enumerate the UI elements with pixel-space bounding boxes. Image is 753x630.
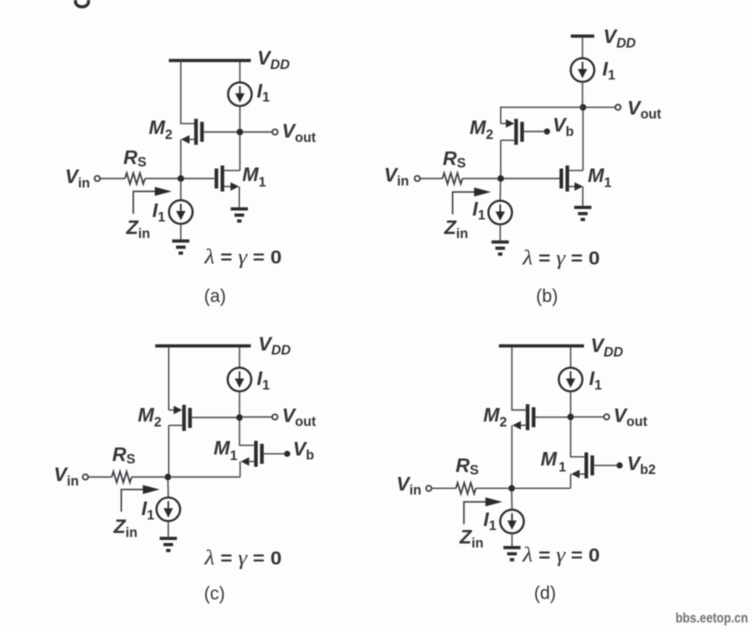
svg-text:(c): (c) xyxy=(204,584,225,604)
M1 label (b) xyxy=(588,165,612,190)
svg-text:bbs.eetop.cn: bbs.eetop.cn xyxy=(676,611,749,626)
svg-text:I1: I1 xyxy=(141,498,154,522)
svg-text:M2: M2 xyxy=(470,117,494,142)
svg-text:M2: M2 xyxy=(138,404,162,429)
wire resistor to input node (a) xyxy=(145,178,178,180)
current source I1 bottom (a) xyxy=(169,200,193,224)
wire resistor to input node (b) xyxy=(463,178,498,180)
svg-text:Vin: Vin xyxy=(65,166,90,190)
partial letter g from cropped caption xyxy=(75,0,88,7)
wire input node to I1 bottom (d) xyxy=(511,492,513,510)
svg-text:λ = γ = 0: λ = γ = 0 xyxy=(204,545,282,569)
Vb2 label (d) xyxy=(627,453,656,477)
Vout node dot (d) xyxy=(567,414,574,421)
ground M1 (a) xyxy=(231,207,248,222)
wire I1 to Vout node (a) xyxy=(239,106,241,131)
VDD rail (c) xyxy=(155,344,251,347)
M2 label (a) xyxy=(149,117,173,142)
Zin arrow (d) xyxy=(464,497,503,524)
input node dot (b) xyxy=(497,175,504,182)
wire input node to M1 gate (b) xyxy=(504,178,560,180)
wire VDD rail to I1 top (d) xyxy=(570,347,572,368)
Vb bias dot (b) xyxy=(544,128,550,134)
RS label (a) xyxy=(123,147,146,170)
svg-text:M1: M1 xyxy=(541,448,567,474)
wire M2 drain to input node (b) xyxy=(500,140,502,178)
svg-text:RS: RS xyxy=(456,455,479,478)
svg-text:Vin: Vin xyxy=(396,473,421,497)
caption (c) xyxy=(204,584,225,604)
wire I1 bottom to ground (b) xyxy=(499,224,501,241)
transistor M1 (a) xyxy=(215,166,240,192)
wire input node to I1 bottom (b) xyxy=(499,182,501,200)
wire Vout node to terminal (a) xyxy=(243,131,272,133)
svg-text:Zin: Zin xyxy=(443,217,468,241)
watermark bbs.eetop.cn xyxy=(676,611,749,626)
I1 label bottom (a) xyxy=(152,200,165,224)
svg-text:VDD: VDD xyxy=(258,333,291,357)
wire input node to I1 bottom (a) xyxy=(180,182,182,200)
Vout label (c) xyxy=(282,405,317,429)
wire I1 bottom to ground (c) xyxy=(167,521,169,537)
wire Vout node down to M1 drain (a) xyxy=(239,135,241,171)
I1 label bottom (b) xyxy=(472,198,485,222)
resistor RS (c) xyxy=(112,472,132,483)
ground I1 (c) xyxy=(160,537,177,552)
M2 label (c) xyxy=(138,404,162,429)
svg-text:I1: I1 xyxy=(152,200,165,224)
svg-text:M1: M1 xyxy=(588,165,612,190)
Zin arrow (a) xyxy=(133,187,172,214)
M1 label (a) xyxy=(242,164,266,189)
lambda=gamma=0 label (b) xyxy=(522,246,600,270)
lambda=gamma=0 label (a) xyxy=(204,245,282,269)
RS label (c) xyxy=(112,444,135,467)
current source I1 bottom (c) xyxy=(157,498,181,522)
wire input node to I1 bottom (c) xyxy=(167,480,169,497)
svg-text:Zin: Zin xyxy=(125,217,150,241)
ground I1 (b) xyxy=(492,240,509,255)
caption (a) xyxy=(204,286,226,306)
transistor M2 (c) xyxy=(169,405,240,431)
wire Vout node down to M1 drain (c) xyxy=(240,421,254,446)
wire I1 to Vout node (b) xyxy=(582,82,584,106)
current source I1 top (c) xyxy=(228,368,252,392)
wire resistor to input node (d) xyxy=(476,487,508,489)
Vout terminal (a) xyxy=(272,129,277,134)
wire Vin to resistor (a) xyxy=(100,178,125,180)
M1 label (d) xyxy=(541,448,567,474)
svg-text:Vout: Vout xyxy=(282,405,317,429)
Vb label (b) xyxy=(553,115,574,139)
wire VDD rail to M2 drain (d) xyxy=(512,347,526,410)
transistor M1 (d) xyxy=(571,452,616,478)
I1 label top (a) xyxy=(257,80,270,104)
wire Vout node to terminal (d) xyxy=(574,416,604,418)
wire M1 drain to Vout node (b) xyxy=(582,111,584,171)
svg-text:(a): (a) xyxy=(204,286,226,306)
transistor M2 (b) xyxy=(501,119,544,145)
resistor RS (d) xyxy=(456,483,476,494)
wire M1 source to ground (a) xyxy=(238,187,240,208)
wire Vout node down to M1 drain (d) xyxy=(571,420,585,457)
Vin label (d) xyxy=(396,473,421,497)
transistor M2 (d) xyxy=(512,404,570,430)
resistor RS (b) xyxy=(443,173,463,184)
input node dot (d) xyxy=(508,485,515,492)
svg-text:Vout: Vout xyxy=(613,405,648,429)
svg-text:λ = γ = 0: λ = γ = 0 xyxy=(522,542,600,566)
Vin label (c) xyxy=(54,464,79,488)
svg-text:Vin: Vin xyxy=(384,164,409,188)
transistor M2 (a) xyxy=(181,119,240,145)
wire VDD to I1 top (b) xyxy=(582,38,584,59)
svg-text:(b): (b) xyxy=(536,286,558,306)
wire Vout node to terminal (c) xyxy=(243,416,272,418)
svg-text:Vb: Vb xyxy=(553,115,574,139)
wire M1 source to input wire (c) xyxy=(239,462,241,478)
svg-text:Vout: Vout xyxy=(282,121,317,145)
caption (b) xyxy=(536,286,558,306)
ground M1 (b) xyxy=(574,206,591,221)
wire M1 source to ground (b) xyxy=(582,187,584,206)
Vin terminal (b) xyxy=(415,176,420,181)
svg-text:λ = γ = 0: λ = γ = 0 xyxy=(204,245,282,269)
svg-text:Zin: Zin xyxy=(459,526,484,550)
svg-text:RS: RS xyxy=(123,147,146,170)
ground I1 (a) xyxy=(172,239,189,254)
transistor M1 (b) xyxy=(560,166,584,192)
VDD rail (d) xyxy=(499,344,584,347)
wire Vin to resistor (b) xyxy=(420,178,443,180)
wire input node to M1 source (d) xyxy=(515,487,571,489)
current source I1 top (d) xyxy=(559,368,583,392)
wire M2 drain to input node (c) xyxy=(168,425,170,477)
input node dot (c) xyxy=(165,474,172,481)
svg-text:Vb: Vb xyxy=(293,438,314,462)
wire Vout node to terminal (b) xyxy=(586,106,615,108)
Vin terminal (d) xyxy=(426,486,431,491)
svg-text:I1: I1 xyxy=(472,198,485,222)
svg-text:I1: I1 xyxy=(589,368,602,392)
svg-text:M2: M2 xyxy=(149,117,173,142)
Vin terminal (a) xyxy=(95,176,100,181)
wire I1 bottom to ground (d) xyxy=(511,534,513,547)
svg-text:Zin: Zin xyxy=(113,516,138,540)
wire Vout node to M2 source (b) xyxy=(501,107,583,123)
wire I1 bottom to ground (a) xyxy=(180,224,182,240)
Vb bias dot (c) xyxy=(284,451,290,457)
transistor M1 (c) xyxy=(241,441,285,467)
svg-text:I1: I1 xyxy=(483,509,496,533)
Vin label (b) xyxy=(384,164,409,188)
resistor RS (a) xyxy=(125,173,145,184)
svg-text:VDD: VDD xyxy=(603,26,636,50)
lambda=gamma=0 label (d) xyxy=(522,542,600,566)
M2 label (d) xyxy=(483,404,507,429)
Vin terminal (c) xyxy=(83,474,88,479)
Zin label (d) xyxy=(459,526,484,550)
RS label (b) xyxy=(443,148,466,171)
Zin label (a) xyxy=(125,217,150,241)
svg-text:M1: M1 xyxy=(214,438,238,463)
Zin label (b) xyxy=(443,217,468,241)
svg-text:Vin: Vin xyxy=(54,464,79,488)
VDD rail (b) xyxy=(571,35,594,38)
I1 label top (b) xyxy=(602,58,615,82)
current source I1 top (a) xyxy=(228,82,252,106)
I1 label bottom (c) xyxy=(141,498,154,522)
Vin label (a) xyxy=(65,166,90,190)
wire Vin to resistor (d) xyxy=(432,487,456,489)
VDD label (b) xyxy=(603,26,636,50)
I1 label top (d) xyxy=(589,368,602,392)
VDD label (a) xyxy=(257,48,290,72)
wire I1 to Vout node (d) xyxy=(570,391,572,416)
VDD label (c) xyxy=(258,333,291,357)
svg-text:I1: I1 xyxy=(257,368,270,392)
current source I1 bottom (d) xyxy=(500,510,524,534)
I1 label bottom (d) xyxy=(483,509,496,533)
wire I1 to Vout node (c) xyxy=(239,391,241,416)
ground I1 (d) xyxy=(503,546,520,561)
wire VDD rail to I1 top (a) xyxy=(239,62,241,82)
M2 label (b) xyxy=(470,117,494,142)
RS label (d) xyxy=(456,455,479,478)
wire input node to M1 source (c) xyxy=(171,476,240,478)
Zin arrow (c) xyxy=(121,485,160,512)
VDD rail (a) xyxy=(169,59,251,62)
wire VDD rail to M2 source (c) xyxy=(168,347,170,410)
current source I1 bottom (b) xyxy=(488,201,512,225)
Vout label (d) xyxy=(613,405,648,429)
Vout node dot (a) xyxy=(237,129,244,136)
wire M2 source to input node (a) xyxy=(180,139,182,178)
wire VDD rail to I1 top (c) xyxy=(239,347,241,368)
svg-text:I1: I1 xyxy=(257,80,270,104)
wire M2 source to input node (d) xyxy=(511,425,513,488)
svg-text:M2: M2 xyxy=(483,404,507,429)
svg-text:VDD: VDD xyxy=(591,335,624,359)
Vout label (b) xyxy=(627,97,662,121)
current source I1 top (b) xyxy=(571,58,595,82)
Vout terminal (d) xyxy=(604,414,609,419)
Vout node dot (c) xyxy=(236,414,243,421)
svg-text:RS: RS xyxy=(112,444,135,467)
wire VDD rail to M2 drain (a) xyxy=(181,61,194,124)
svg-text:(d): (d) xyxy=(534,583,556,603)
svg-text:M1: M1 xyxy=(242,164,266,189)
svg-text:I1: I1 xyxy=(602,58,615,82)
wire resistor to input node (c) xyxy=(132,476,165,478)
M1 label (c) xyxy=(214,438,238,463)
svg-text:λ = γ = 0: λ = γ = 0 xyxy=(522,246,600,270)
wire Vin to resistor (c) xyxy=(88,476,112,478)
Vb2 bias dot (d) xyxy=(617,462,623,468)
wire input node to M1 gate (a) xyxy=(184,178,214,180)
wire M1 source to input wire (d) xyxy=(570,474,572,488)
VDD label (d) xyxy=(591,335,624,359)
input node dot (a) xyxy=(178,175,185,182)
svg-text:Vb2: Vb2 xyxy=(627,453,656,477)
caption (d) xyxy=(534,583,556,603)
Vout label (a) xyxy=(282,121,317,145)
Vout node dot (b) xyxy=(580,104,587,111)
svg-text:VDD: VDD xyxy=(257,48,290,72)
Vb label (c) xyxy=(293,438,314,462)
Vout terminal (b) xyxy=(615,105,620,110)
Zin arrow (b) xyxy=(453,188,492,215)
svg-text:RS: RS xyxy=(443,148,466,171)
I1 label top (c) xyxy=(257,368,270,392)
svg-text:Vout: Vout xyxy=(627,97,662,121)
Vout terminal (c) xyxy=(272,414,277,419)
Zin label (c) xyxy=(113,516,138,540)
lambda=gamma=0 label (c) xyxy=(204,545,282,569)
